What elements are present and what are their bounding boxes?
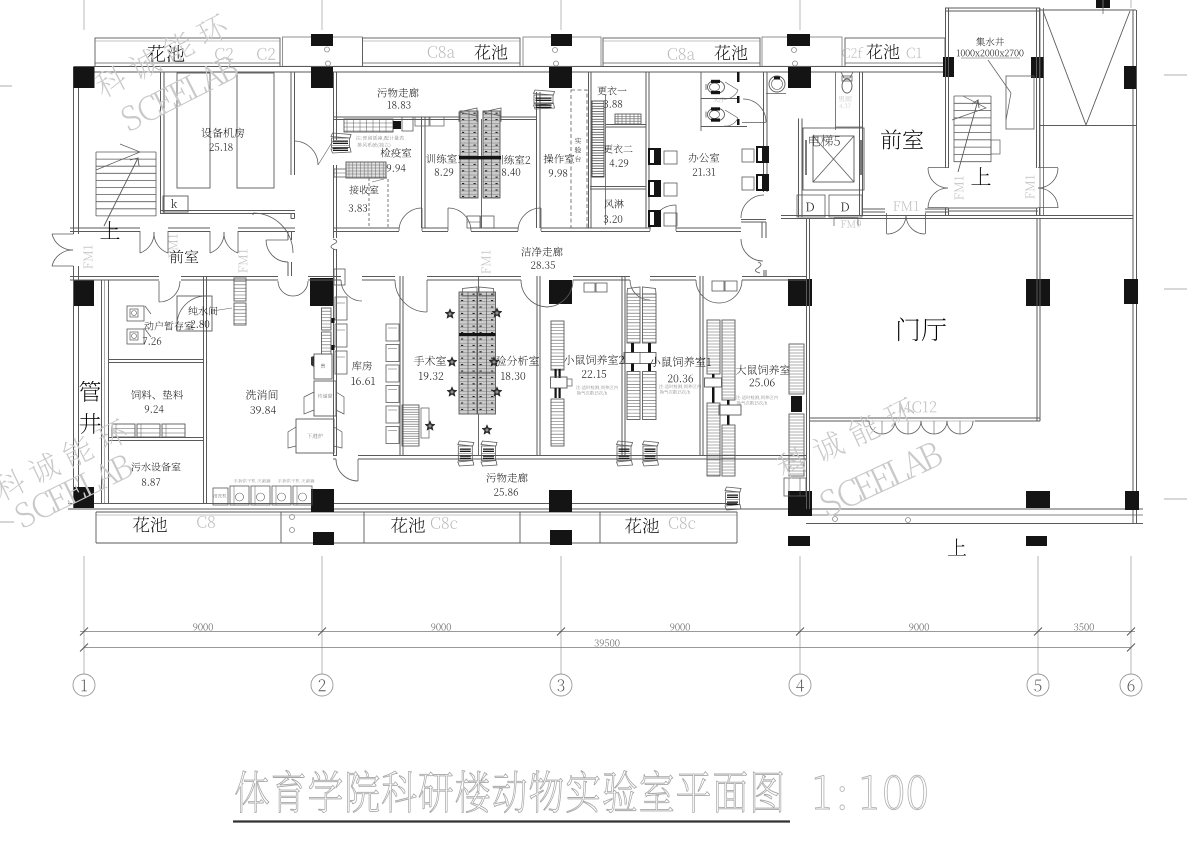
- office left wall: [645, 72, 647, 228]
- column C3: [549, 490, 572, 512]
- rat room right rack: [789, 344, 804, 394]
- receiving room dashed cabinet: [369, 178, 388, 228]
- label C8a band C: [668, 48, 677, 60]
- mouse room 2 rack: [551, 321, 564, 370]
- stair enclosure walls: [945, 8, 947, 168]
- label k: [171, 199, 177, 208]
- watermark 1 top-left: [92, 11, 249, 136]
- corridor bottom wall: [70, 276, 159, 278]
- column H1: [1031, 57, 1044, 78]
- washroom side stack: [322, 308, 332, 330]
- column E3: [1026, 491, 1050, 508]
- stub B4: [313, 532, 334, 545]
- equipment room label: [201, 128, 211, 138]
- dirty corridor bottom wall: [333, 116, 460, 118]
- hallway front-room right wall: [859, 72, 861, 215]
- cistern dark2: [711, 91, 720, 94]
- column E2: [1026, 279, 1050, 306]
- column D1: [788, 67, 811, 88]
- label 风淋: [604, 199, 613, 208]
- doors front room left: [139, 231, 141, 253]
- label C8c band3: [669, 517, 678, 529]
- label 训练室1: [426, 154, 435, 164]
- wash room wall boxes: [234, 278, 246, 301]
- wash area wall and arch: [743, 99, 766, 122]
- label 操作室: [544, 154, 554, 164]
- stair enclosure bottom wall: [948, 207, 1038, 209]
- basin tap: [774, 77, 780, 80]
- label 管井 char2: [80, 413, 101, 434]
- connector bar c: [631, 364, 634, 372]
- label 花池 band A: [148, 45, 166, 62]
- rack divider 3: [459, 372, 496, 374]
- label 污物走廊 top: [378, 88, 387, 97]
- cistern dark: [711, 80, 720, 83]
- rack 检验分析室: [478, 292, 496, 414]
- sink row bottom: [213, 488, 228, 505]
- urinal: [841, 72, 853, 78]
- top flower-bed band D: [845, 38, 945, 67]
- column A3: [74, 487, 94, 508]
- label D1: [806, 203, 814, 212]
- label 上 bottom: [948, 539, 966, 556]
- wash basin: [769, 76, 785, 92]
- label 小鼠饲养室2: [564, 355, 574, 365]
- planter box at grid4: [762, 37, 842, 66]
- pass window 传递窗: [314, 381, 336, 416]
- doors top corridor: [253, 213, 293, 253]
- column I1: [1124, 66, 1136, 89]
- label 动户暂存室: [144, 321, 153, 330]
- down furnace box: [296, 419, 334, 453]
- label 花池 band D: [866, 44, 882, 59]
- wall training1/training2: [481, 119, 483, 228]
- desk chair L: [648, 210, 661, 227]
- bracket a: [331, 318, 335, 323]
- label MC12: [898, 401, 911, 412]
- label 洗消间: [246, 390, 256, 400]
- column C2m: [549, 280, 572, 304]
- storage room racks: [335, 297, 347, 320]
- title scale: [815, 775, 829, 809]
- left outer wall: [73, 67, 75, 234]
- label FM1: [84, 245, 93, 269]
- connector bar: [559, 388, 561, 398]
- fan trapezoids dirty corridor: [458, 441, 474, 446]
- MC12 scalloped door: [869, 421, 895, 434]
- bottom wall left wing: [68, 503, 737, 505]
- grid tick marks top: [83, 0, 85, 30]
- column A1: [74, 67, 95, 88]
- sump pit: [1006, 76, 1034, 129]
- surgery room cabinet: [402, 405, 419, 446]
- label 库房: [352, 361, 362, 371]
- grid bubbles: [73, 674, 95, 696]
- column B2: [310, 278, 333, 306]
- label 饲料垫料: [131, 390, 141, 400]
- label FM1: [169, 234, 178, 258]
- rack 训练室1: [460, 111, 478, 198]
- label 洁净走廊: [522, 247, 532, 257]
- label 小鼠饲养室1: [650, 357, 660, 367]
- connector bar: [559, 369, 561, 378]
- dimension line 1: [80, 631, 1135, 633]
- stool stars: [445, 309, 455, 319]
- label 花池 bottom band2: [391, 517, 407, 533]
- label 检验分析室: [485, 356, 495, 366]
- label FM1: [239, 249, 248, 273]
- quarantine bench: [344, 119, 393, 132]
- stair enclosure east double door: [1038, 167, 1058, 169]
- label C2f: [842, 48, 849, 58]
- wc fixtures top middle: [708, 81, 725, 94]
- label 花池 bottom band3: [625, 518, 641, 534]
- label 污物走廊 bottom: [487, 473, 496, 482]
- bottom wall right terrace: [806, 514, 1143, 516]
- right outer wall: [1132, 10, 1134, 524]
- fan unit 操作室 top: [534, 90, 555, 95]
- stall jamb b: [737, 96, 740, 103]
- label 接收室: [349, 185, 358, 194]
- connector bar: [555, 388, 557, 398]
- rack top fan caps: [459, 108, 477, 122]
- label 检疫室: [381, 148, 391, 158]
- column C1: [549, 67, 572, 88]
- edge ticks: [0, 85, 12, 87]
- label 电梯5: [809, 135, 820, 146]
- label 污水设备室: [131, 462, 140, 471]
- labs right wall: [806, 218, 808, 509]
- column D2: [788, 279, 812, 306]
- connector bar: [555, 369, 557, 378]
- label C2b: [257, 48, 266, 60]
- column F3: [1125, 491, 1139, 510]
- stall jamb c: [737, 119, 740, 125]
- lobby bottom wall: [810, 417, 1040, 419]
- label 大鼠饲养室: [736, 365, 746, 375]
- watermark 3 lobby: [773, 392, 944, 528]
- label 上 right stairs: [971, 167, 990, 185]
- wc block walls: [700, 72, 702, 131]
- stairs left: [96, 151, 156, 153]
- bar: [712, 387, 715, 403]
- front room bottom wall: [862, 208, 885, 210]
- connector bar d: [648, 364, 651, 372]
- slanted caps mouse1: [627, 287, 640, 294]
- top flower-bed band B: [363, 38, 521, 67]
- label C8: [197, 516, 206, 528]
- bar: [727, 400, 730, 405]
- label FM9: [841, 220, 846, 227]
- pass boxes below training racks: [467, 216, 480, 228]
- watermark 2 bottom-left: [0, 416, 144, 532]
- title underline: [233, 820, 790, 822]
- column G1: [943, 57, 954, 77]
- desk chair L: [648, 180, 661, 197]
- elevator shaft: [803, 128, 864, 190]
- bottom band circles: [290, 515, 295, 520]
- operation/changing wall: [588, 72, 590, 228]
- label 前室 right: [881, 129, 901, 149]
- cistern dark: [711, 107, 720, 110]
- dirty corridor stray star: [425, 421, 435, 431]
- column F2: [1124, 279, 1138, 304]
- band column circles: [325, 47, 330, 52]
- changing room cage stack: [592, 101, 604, 177]
- label 办公室: [689, 153, 698, 163]
- rack divider 2: [459, 333, 496, 336]
- canopy V entrance: [1040, 9, 1136, 11]
- label 纯水间: [188, 306, 197, 315]
- connector bar b: [648, 343, 651, 353]
- stair enclosure west double door: [928, 167, 948, 169]
- fan unit 污物走廊 left: [331, 133, 351, 138]
- label C8c: [431, 517, 440, 529]
- bar: [712, 374, 715, 378]
- label 更衣一: [597, 86, 606, 95]
- equipment room machines: [177, 73, 210, 188]
- desk chair L: [648, 148, 661, 165]
- column B1: [311, 67, 333, 88]
- changing rooms walls: [605, 95, 607, 225]
- front room left right wall: [287, 231, 289, 240]
- column D0: [787, 34, 810, 46]
- desk chair R: [756, 174, 769, 191]
- bar: [727, 415, 730, 425]
- stairs top-right: [954, 95, 991, 97]
- label D2: [841, 203, 849, 212]
- rack divider black: [459, 156, 501, 159]
- label 门厅: [898, 317, 919, 341]
- label 更衣二: [603, 144, 612, 153]
- changing room cabinet BO: [615, 114, 641, 124]
- front room FM1 door below (south): [886, 213, 888, 234]
- label FM1 horiz: [893, 201, 900, 210]
- label FM1 right: [1026, 175, 1035, 199]
- dark box on bench: [393, 121, 401, 129]
- column A2: [74, 280, 94, 306]
- wall training2/operation: [536, 92, 538, 228]
- label 花池 bottom band1: [133, 517, 149, 533]
- lab bench dashed 操作室: [571, 90, 587, 228]
- sewage room icons: [127, 306, 144, 321]
- cistern dark2: [711, 119, 720, 122]
- label 集水井: [976, 37, 985, 46]
- lobby top wall: [781, 215, 1133, 217]
- label 管井 char1: [79, 381, 100, 402]
- animal box: [314, 354, 332, 379]
- doors into middle rooms: [395, 280, 427, 312]
- label 前室 left: [170, 250, 184, 264]
- labs bottom wall: [333, 455, 336, 457]
- stub C4: [550, 530, 572, 545]
- office right wall: [763, 72, 765, 192]
- quarantine block left wall: [333, 72, 335, 140]
- label 上 left stairs: [100, 221, 119, 239]
- small wc strip: [835, 72, 837, 130]
- column B0: [311, 34, 333, 46]
- left small rooms walls: [108, 359, 203, 361]
- dimension line 2: [84, 647, 1131, 649]
- top-right grid marker: [1096, 0, 1110, 8]
- rack 手术室: [459, 292, 477, 414]
- k box: [163, 196, 188, 212]
- wc fixture right: [842, 79, 852, 93]
- planter box at grid2: [283, 37, 363, 66]
- mouse room 1 racks: [627, 294, 640, 343]
- top slanted caps surgery racks: [462, 287, 477, 296]
- connector 大鼠 c: [791, 396, 802, 412]
- corridor right end stub: [741, 219, 766, 221]
- label C1: [907, 48, 915, 59]
- corridor top wall (clean corridor north): [70, 227, 140, 229]
- planter box at grid3: [523, 37, 601, 66]
- equipment room walls: [160, 72, 162, 213]
- column D3: [788, 491, 812, 516]
- column B3: [311, 489, 334, 512]
- label 训练室2: [494, 155, 503, 165]
- label C2: [215, 48, 224, 60]
- desk chair R: [756, 146, 769, 163]
- feed room benches: [112, 424, 135, 437]
- tiny notes under mouse rooms: [576, 385, 580, 389]
- connector bar a: [631, 343, 634, 353]
- middle block interior walls: [101, 280, 103, 503]
- building top wall: [74, 66, 949, 68]
- stub E4: [1026, 536, 1047, 546]
- wall quarantine/training1: [421, 117, 423, 228]
- door lab to dirty corridor: [336, 459, 358, 481]
- label 实验台 vertical: [575, 138, 581, 144]
- rat room racks: [707, 320, 720, 374]
- label FM1 right: [955, 176, 964, 200]
- elevator block left wall: [798, 119, 800, 218]
- column C0: [551, 34, 572, 46]
- label C8a: [428, 46, 437, 58]
- title text: [236, 771, 269, 813]
- label 花池 band C: [714, 45, 730, 60]
- top flower-bed band A: [95, 38, 280, 67]
- quarantine hatch boiler: [346, 162, 386, 178]
- bracket b: [331, 345, 335, 350]
- label sump size: [957, 50, 960, 57]
- label 手术室: [414, 356, 424, 366]
- label FM1: [482, 250, 491, 274]
- rack 训练室2: [483, 111, 500, 198]
- stall jamb a: [737, 72, 740, 82]
- dimension vertical grid lines: [83, 556, 85, 674]
- left outer double door: [52, 233, 74, 235]
- bottom flower-bed band: [96, 511, 737, 513]
- top flower-bed band C: [603, 38, 760, 67]
- pure water room: [177, 296, 212, 331]
- stub D4: [788, 536, 810, 546]
- lobby inner wall vertical: [1036, 219, 1038, 421]
- equipment room right wall: [290, 72, 292, 175]
- label 花池 band B: [474, 44, 490, 59]
- elevator D boxes: [797, 195, 825, 217]
